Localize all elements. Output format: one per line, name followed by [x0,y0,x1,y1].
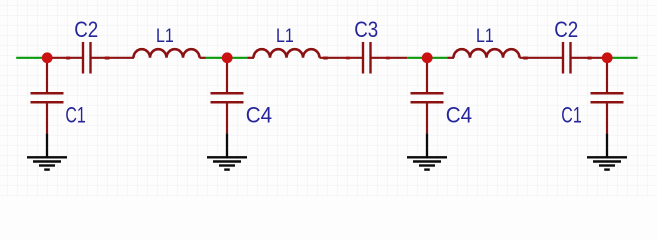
capacitor C2 (right series) [563,42,607,74]
pin tip C3 left [346,57,351,60]
pin tip C3 right [386,57,391,60]
capacitor C1 (right shunt) [591,63,624,133]
svg-text:C4: C4 [446,103,472,128]
wire W4 output (net OUT) [607,57,638,59]
node B junction [222,52,233,63]
svg-text:L1: L1 [156,25,174,47]
capacitor C4 (left-middle shunt) [211,63,244,133]
wire W1 input (net IN) [16,57,47,59]
capacitor C2 (left series) [47,42,112,74]
inductor L1 (first) [112,49,206,58]
ground (right-middle) [407,133,447,169]
node D junction [602,52,613,63]
svg-text:C3: C3 [354,17,378,42]
pin tip C2 right-series [587,57,592,60]
inductor L1 (second) [247,49,362,58]
capacitor C4 (right-middle shunt) [411,63,444,133]
svg-text:C2: C2 [74,17,98,42]
ground (left) [27,133,67,169]
wire W2 [206,57,248,59]
wire W3 [407,57,447,59]
pin joint L1/C3 [323,57,328,60]
ground (right) [587,133,627,169]
ground (left-middle) [207,133,247,169]
svg-text:C1: C1 [65,103,85,128]
pin tip C2 left [66,57,71,60]
pin joint C2/L1 [104,57,109,60]
capacitor C3 (middle series) [363,42,407,74]
svg-text:C2: C2 [554,17,578,42]
svg-text:L1: L1 [276,25,294,47]
svg-text:C1: C1 [561,103,581,128]
capacitor C1 (left shunt) [31,63,64,133]
pin joint L1/C2 right [523,57,528,60]
inductor L1 (third) [447,49,562,58]
svg-text:C4: C4 [246,103,272,128]
node C junction [422,52,433,63]
node A junction [42,52,53,63]
svg-text:L1: L1 [476,25,494,47]
